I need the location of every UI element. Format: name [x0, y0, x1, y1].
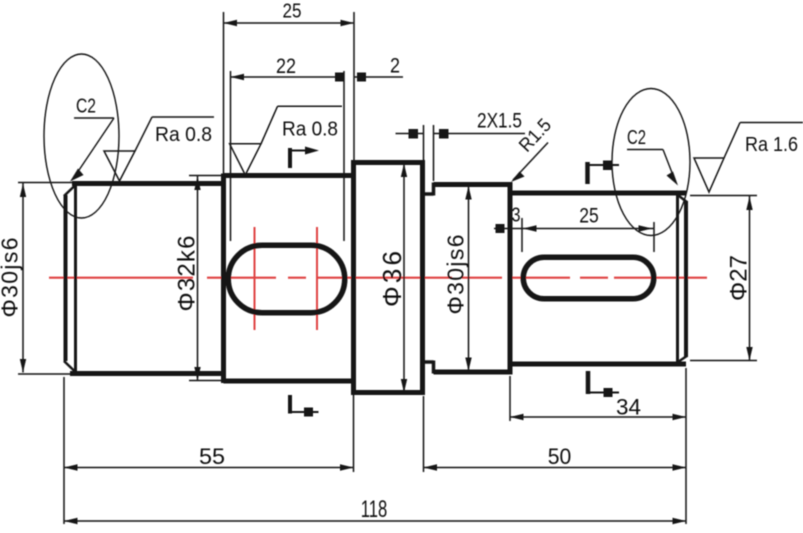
dimension 22 (keyway B length) — [231, 71, 345, 241]
red keyway vertical centerline 1 — [254, 227, 256, 330]
svg-text:Φ30js6: Φ30js6 — [443, 235, 469, 315]
svg-text:25: 25 — [579, 204, 599, 228]
svg-text:Φ32k6: Φ32k6 — [174, 236, 201, 312]
svg-text:Ra 0.8: Ra 0.8 — [155, 124, 212, 146]
dimension Φ27 (section E) — [690, 196, 757, 361]
svg-text:Φ30js6: Φ30js6 — [0, 238, 23, 318]
section indicator arrow (bottom of keyway B) — [290, 395, 319, 417]
svg-text:Φ27: Φ27 — [726, 255, 753, 301]
dimension 25 (keyway E length) — [523, 222, 654, 252]
shaft section B outline (Φ32k6) — [224, 174, 354, 384]
C2 chamfer callout (right) — [612, 89, 690, 236]
section indicator arrow (bottom of keyway E) — [588, 371, 619, 397]
svg-text:Ra 0.8: Ra 0.8 — [282, 119, 338, 141]
shaft section E outline (Φ27, right end) — [510, 193, 688, 364]
dimension 25 (top, section B length) — [224, 12, 355, 174]
svg-text:50: 50 — [548, 444, 572, 469]
svg-text:25: 25 — [283, 1, 302, 23]
svg-text:2: 2 — [390, 55, 400, 78]
shaft section C outline (Φ36 collar) — [354, 160, 423, 395]
svg-text:118: 118 — [361, 496, 388, 523]
dimension Φ32k6 (section B) — [189, 176, 222, 381]
dimension Φ36 (section C) — [401, 163, 407, 393]
shaft section D outline (Φ30js6, right) — [434, 182, 511, 375]
svg-text:Φ36: Φ36 — [377, 251, 407, 307]
red centerline horizontal — [49, 277, 707, 279]
keyway slot on section B — [228, 245, 345, 313]
section indicator arrow (top of keyway E) — [588, 161, 620, 185]
dimension 2 (keyway B to shoulder) — [354, 73, 403, 82]
svg-text:2X1.5: 2X1.5 — [477, 110, 522, 133]
dimension 118 (overall length) — [64, 518, 686, 524]
keyway slot on section E — [523, 257, 654, 299]
surface finish symbol Ra 0.8 (section A) — [104, 117, 214, 181]
red keyway vertical centerline 2 — [316, 227, 318, 330]
dimension 34 (keyway E to end) — [510, 368, 686, 524]
svg-text:55: 55 — [199, 444, 225, 469]
relief groove between C and D — [423, 183, 434, 374]
svg-text:3: 3 — [512, 205, 521, 227]
surface finish symbol Ra 0.8 (section B) — [230, 106, 342, 175]
C2 chamfer callout (left) — [44, 54, 119, 218]
dimension 2X1.5 (relief groove) — [396, 125, 526, 181]
svg-text:22: 22 — [276, 55, 296, 78]
svg-text:C2: C2 — [627, 126, 646, 149]
dimension 3 (step to keyway E) — [494, 218, 654, 252]
dimension Φ30js6 (left, section A) — [18, 183, 74, 375]
dimension 50 (shoulder to right end) — [424, 396, 687, 472]
svg-text:Ra 1.6: Ra 1.6 — [745, 134, 798, 156]
shaft section A outline (Φ30js6, left) — [64, 184, 224, 374]
section indicator arrow (top of keyway B) — [290, 147, 319, 169]
svg-text:C2: C2 — [76, 95, 96, 118]
leader R1.5 (fillet radius) — [511, 143, 548, 183]
dimension Φ30js6 (section D) — [465, 185, 471, 371]
svg-text:34: 34 — [616, 395, 641, 420]
dimension 55 (sections A+B) — [64, 377, 354, 524]
surface finish symbol Ra 1.6 (section E) — [694, 123, 803, 193]
